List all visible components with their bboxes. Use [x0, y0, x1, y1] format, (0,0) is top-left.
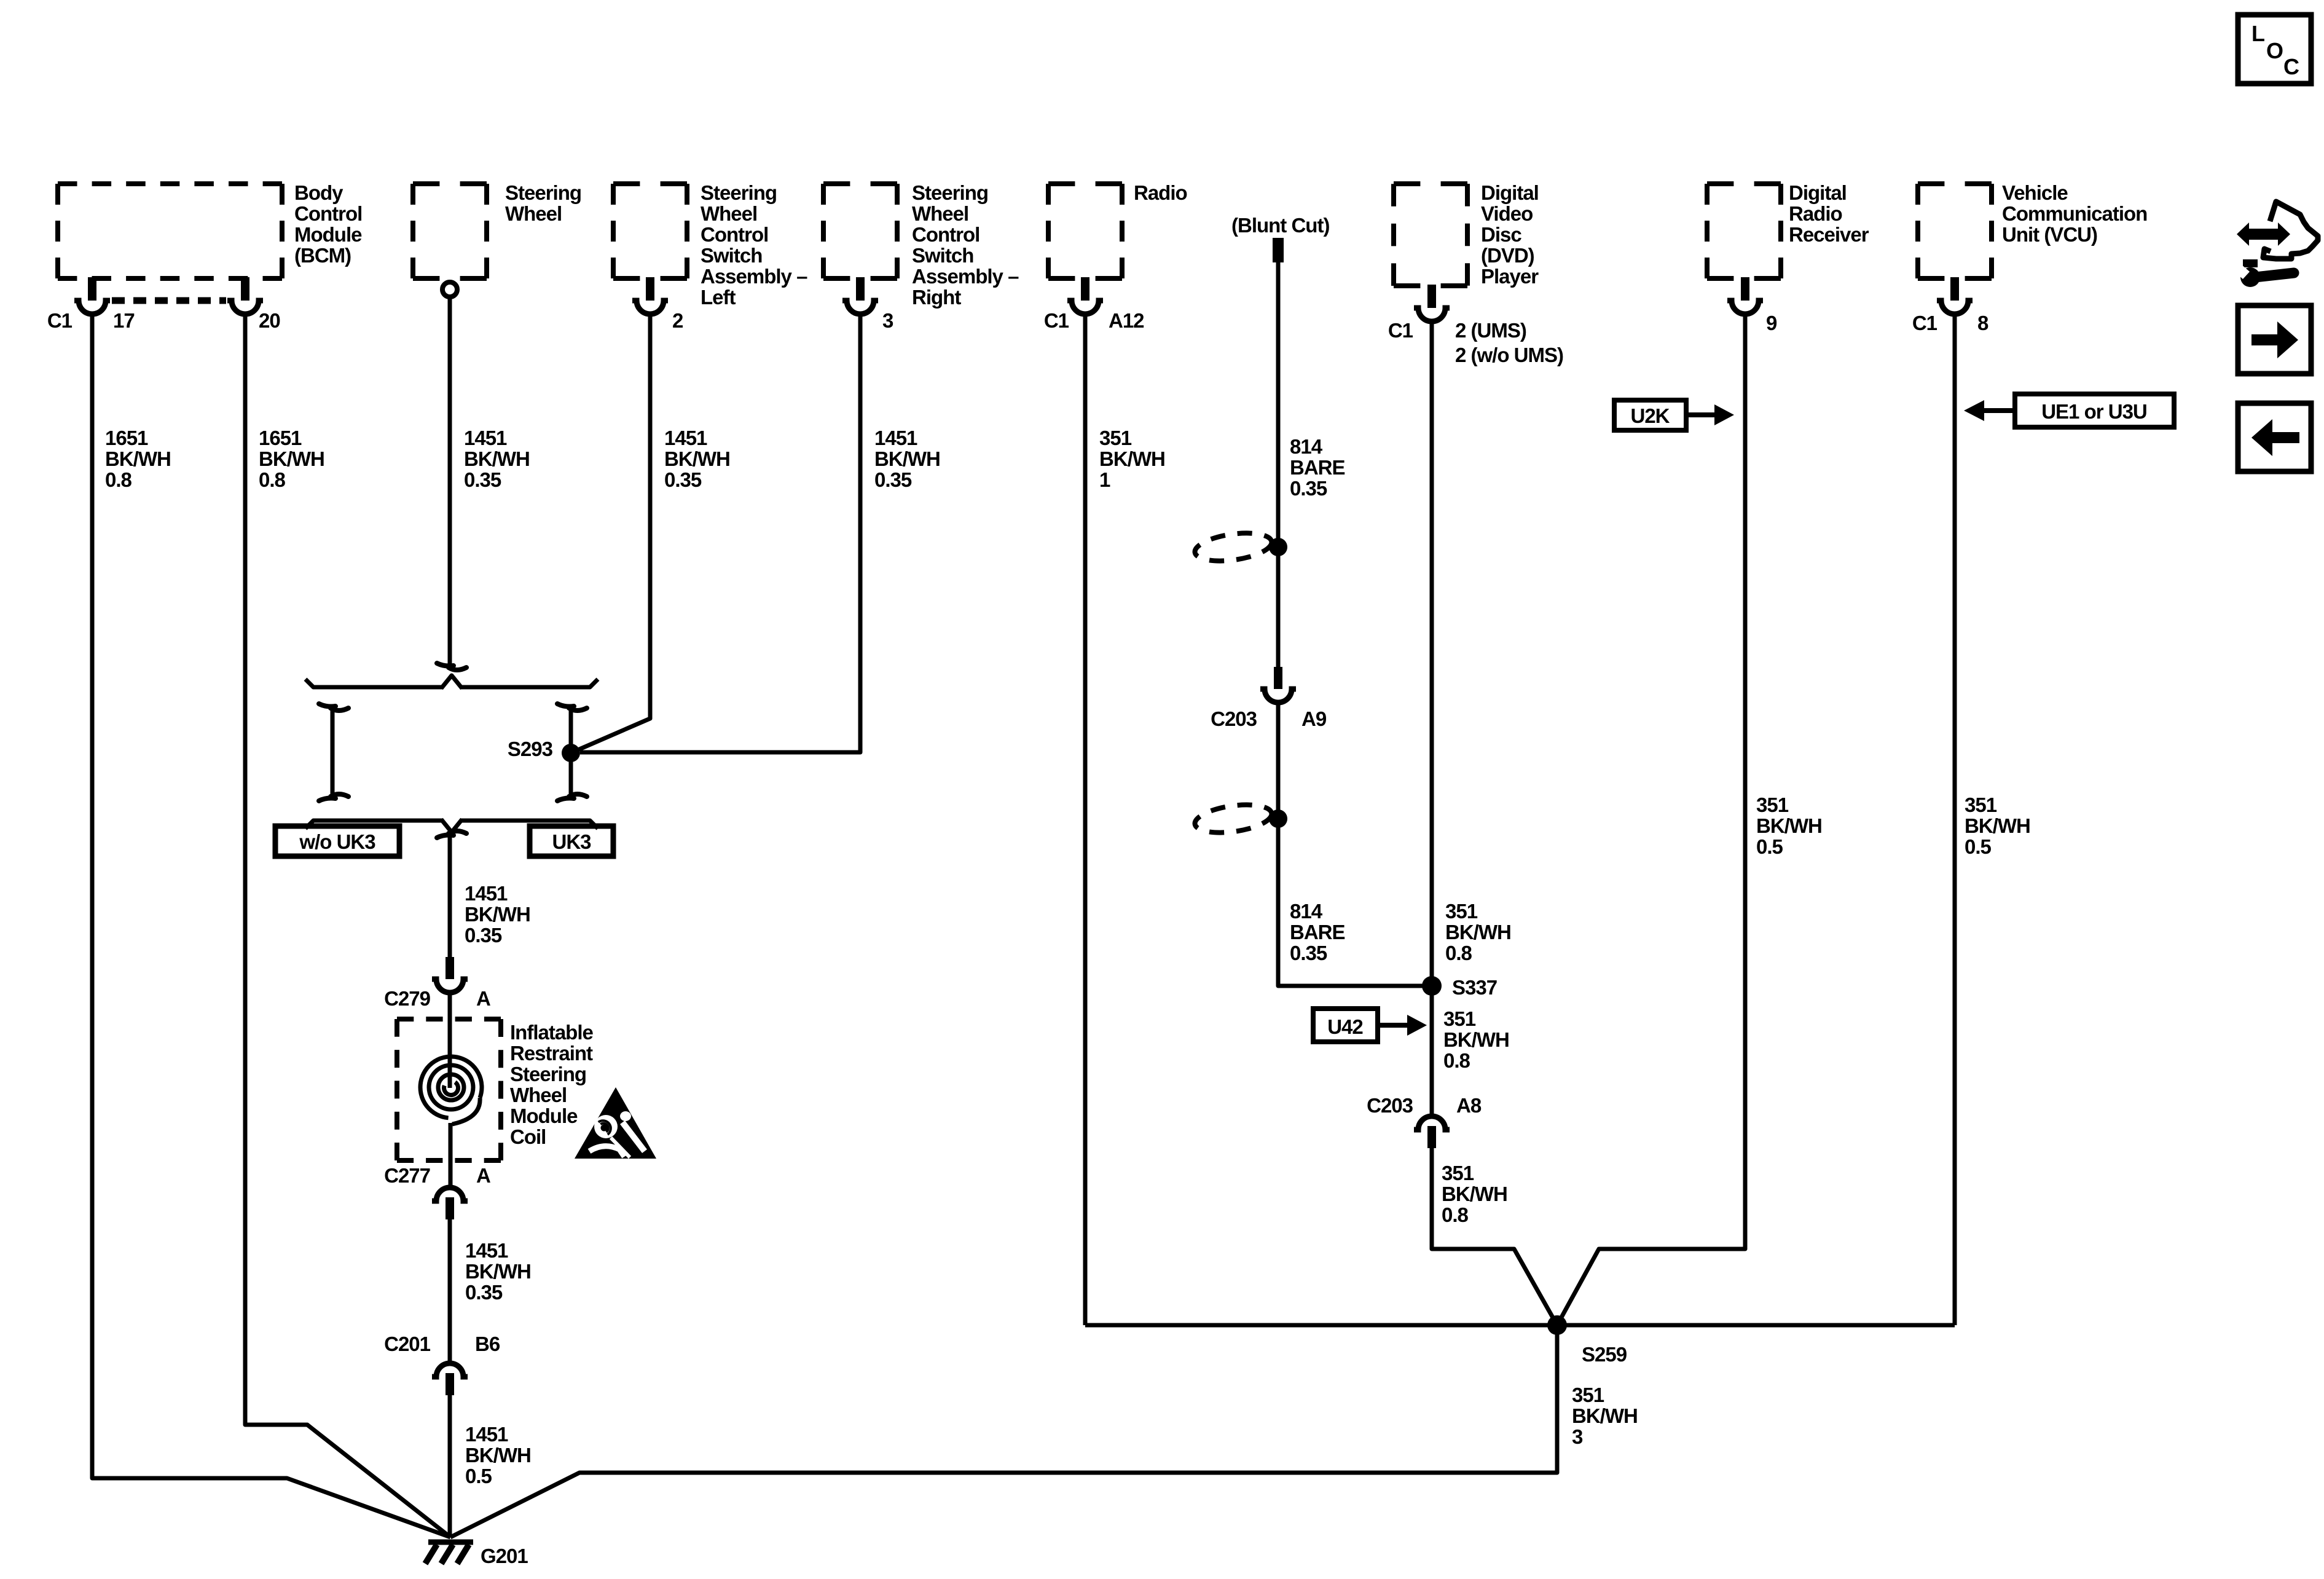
connector DVD C1 pin 2 — [1388, 285, 1563, 366]
wire 351 BK/WH 3 from S259 to G201 — [450, 1325, 1557, 1537]
svg-text:Module: Module — [294, 223, 362, 246]
option box w/o UK3 — [275, 826, 399, 856]
svg-text:1451: 1451 — [464, 427, 507, 449]
svg-text:(BCM): (BCM) — [294, 244, 351, 267]
svg-text:U2K: U2K — [1630, 404, 1670, 427]
svg-text:BK/WH: BK/WH — [259, 447, 324, 470]
splice sleeve lower (dashed ellipse) — [1193, 800, 1274, 837]
svg-text:Steering: Steering — [510, 1063, 586, 1085]
svg-text:Control: Control — [912, 223, 979, 246]
svg-text:1451: 1451 — [874, 427, 917, 449]
svg-text:Assembly –: Assembly – — [701, 265, 807, 288]
svg-text:Radio: Radio — [1134, 181, 1187, 204]
svg-text:C201: C201 — [384, 1333, 431, 1355]
wire 814 BARE 0.35 upper — [1276, 262, 1281, 668]
connector VCU C1 pin 8 — [1912, 277, 1988, 334]
option box UK3 — [530, 826, 613, 856]
label wire 351 BK/WH 0.8 (below S337) — [1443, 1007, 1509, 1072]
wire 351 BK/WH 0.5 from DRR to S259 — [1557, 314, 1745, 1325]
wire 1651 BK/WH 0.8 from BCM pin 20 to G201 — [245, 314, 450, 1537]
option brace bottom — [305, 819, 598, 832]
connector SWCS-Right pin 3 — [842, 277, 893, 332]
svg-text:Body: Body — [294, 181, 343, 204]
svg-text:Control: Control — [294, 202, 362, 225]
label wire 351 BK/WH 0.8 (below C203) — [1442, 1162, 1507, 1226]
label wire 1451 BK/WH 0.5 — [465, 1423, 531, 1487]
svg-text:BK/WH: BK/WH — [465, 1260, 531, 1283]
wire break above option brace — [437, 663, 466, 670]
svg-text:BK/WH: BK/WH — [105, 447, 171, 470]
svg-text:O: O — [2266, 38, 2283, 63]
wire 351 BK/WH 0.8 from C203 A8 to S259 — [1432, 1148, 1557, 1325]
svg-text:20: 20 — [259, 309, 280, 332]
svg-text:Wheel: Wheel — [701, 202, 757, 225]
svg-text:S293: S293 — [508, 738, 553, 760]
svg-text:G201: G201 — [481, 1545, 528, 1567]
svg-text:Wheel: Wheel — [912, 202, 968, 225]
svg-text:Coil: Coil — [510, 1125, 546, 1148]
svg-text:2 (w/o UMS): 2 (w/o UMS) — [1455, 344, 1563, 366]
svg-text:0.5: 0.5 — [1965, 835, 1992, 858]
svg-text:Right: Right — [912, 286, 961, 309]
svg-text:0.8: 0.8 — [259, 468, 286, 491]
svg-text:BK/WH: BK/WH — [465, 903, 530, 926]
svg-text:BK/WH: BK/WH — [1756, 814, 1822, 837]
module box: Steering Wheel Control Switch Assembly - Left — [613, 181, 807, 309]
svg-text:0.35: 0.35 — [874, 468, 912, 491]
splice S259 — [1547, 1315, 1627, 1366]
svg-text:B6: B6 — [475, 1333, 500, 1355]
label wire 351 BK/WH 0.5 (VCU) — [1965, 793, 2030, 858]
label wire 1651 BK/WH 0.8 (pin 20) — [259, 427, 324, 491]
svg-text:351: 351 — [1099, 427, 1132, 449]
svg-text:A8: A8 — [1456, 1094, 1482, 1117]
svg-text:3: 3 — [1572, 1425, 1583, 1448]
label wire 351 BK/WH 1 — [1099, 427, 1165, 491]
svg-text:0.5: 0.5 — [465, 1465, 492, 1487]
wire 814 BARE 0.35 lower — [1278, 703, 1423, 986]
label wire 1651 BK/WH 0.8 (pin 17) — [105, 427, 171, 491]
label wire 351 BK/WH 0.5 (DRR) — [1756, 793, 1822, 858]
svg-text:0.5: 0.5 — [1756, 835, 1783, 858]
svg-text:351: 351 — [1442, 1162, 1474, 1184]
svg-text:S337: S337 — [1452, 976, 1497, 999]
wire 1451 BK/WH 0.5 from C201 to G201 — [448, 1395, 452, 1537]
svg-text:351: 351 — [1965, 793, 1997, 816]
module box: Body Control Module (BCM) — [58, 181, 362, 278]
svg-text:1: 1 — [1099, 468, 1110, 491]
svg-text:A: A — [476, 1164, 490, 1187]
svg-text:Assembly –: Assembly – — [912, 265, 1019, 288]
svg-text:0.8: 0.8 — [1442, 1203, 1469, 1226]
svg-text:Unit (VCU): Unit (VCU) — [2002, 223, 2097, 246]
wire from SWCS-Left pin 2 to S293 — [571, 314, 650, 753]
svg-text:BK/WH: BK/WH — [1443, 1028, 1509, 1051]
svg-text:BK/WH: BK/WH — [1445, 921, 1511, 943]
connector C277 pin A — [384, 1164, 490, 1219]
svg-text:C203: C203 — [1367, 1094, 1413, 1117]
label wire 1451 BK/WH 0.35 (SWCS-R) — [874, 427, 940, 491]
svg-text:0.35: 0.35 — [465, 924, 502, 947]
svg-text:BK/WH: BK/WH — [664, 447, 730, 470]
svg-text:Steering: Steering — [701, 181, 777, 204]
svg-text:0.35: 0.35 — [1290, 477, 1327, 500]
svg-text:1651: 1651 — [259, 427, 302, 449]
wire 1451 BK/WH 0.35 to C279 — [448, 837, 452, 958]
svg-text:UE1 or U3U: UE1 or U3U — [2041, 400, 2147, 423]
svg-text:Digital: Digital — [1481, 181, 1539, 204]
svg-text:Switch: Switch — [912, 244, 973, 267]
svg-text:Communication: Communication — [2002, 202, 2147, 225]
splice S293 — [508, 738, 580, 762]
wire 351 BK/WH 0.8 from DVD player — [1430, 321, 1434, 1114]
svg-text:A9: A9 — [1301, 707, 1327, 730]
svg-text:814: 814 — [1290, 900, 1323, 923]
svg-text:C279: C279 — [384, 987, 431, 1010]
svg-text:2 (UMS): 2 (UMS) — [1455, 319, 1526, 342]
label wire 1451 BK/WH 0.35 (above C279) — [465, 882, 530, 947]
svg-text:Steering: Steering — [505, 181, 581, 204]
svg-text:UK3: UK3 — [552, 830, 591, 853]
svg-text:Video: Video — [1481, 202, 1533, 225]
svg-text:BK/WH: BK/WH — [1442, 1183, 1507, 1205]
alternative branch right (UK3) — [557, 704, 587, 801]
wire 351 BK/WH 0.5 from VCU to S259 — [1953, 314, 1957, 1325]
airbag warning triangle — [575, 1087, 656, 1159]
module box: Radio — [1048, 181, 1187, 278]
svg-text:351: 351 — [1443, 1007, 1476, 1030]
alternative branch left (w/o UK3) — [319, 704, 348, 801]
svg-text:1651: 1651 — [105, 427, 148, 449]
svg-text:1451: 1451 — [465, 1423, 508, 1446]
svg-text:BK/WH: BK/WH — [1572, 1404, 1638, 1427]
module box: Vehicle Communication Unit (VCU) — [1918, 181, 2147, 278]
svg-text:Switch: Switch — [701, 244, 762, 267]
svg-text:Module: Module — [510, 1105, 578, 1127]
svg-text:2: 2 — [672, 309, 683, 332]
svg-text:Wheel: Wheel — [505, 202, 562, 225]
svg-text:1451: 1451 — [664, 427, 707, 449]
label wire 814 BARE 0.35 (upper) — [1290, 435, 1345, 500]
connector DRR pin 9 — [1727, 277, 1777, 334]
connector BCM C1 pin 17 — [47, 277, 135, 332]
svg-text:0.8: 0.8 — [105, 468, 132, 491]
svg-text:(Blunt Cut): (Blunt Cut) — [1231, 214, 1329, 237]
svg-text:1451: 1451 — [465, 882, 508, 905]
connector SWCS-Left pin 2 — [632, 277, 683, 332]
svg-text:U42: U42 — [1327, 1015, 1363, 1038]
svg-text:0.35: 0.35 — [664, 468, 702, 491]
svg-text:351: 351 — [1445, 900, 1478, 923]
svg-text:Player: Player — [1481, 265, 1539, 288]
svg-text:Inflatable: Inflatable — [510, 1021, 594, 1044]
splice S337 — [1422, 976, 1497, 999]
wire 351 BK/WH 1 from radio to S259 — [1083, 314, 1088, 1325]
svg-text:Control: Control — [701, 223, 768, 246]
connector C1 dashed link — [112, 297, 226, 304]
right-arrow legend box — [2238, 305, 2311, 374]
svg-text:814: 814 — [1290, 435, 1323, 458]
connector C279 pin A — [384, 957, 490, 1010]
module box: Digital Radio Receiver — [1707, 181, 1869, 278]
svg-text:9: 9 — [1766, 312, 1777, 334]
wire into coil module — [448, 993, 452, 1088]
connector: steering wheel ring terminal — [442, 282, 457, 297]
connector C201 pin B6 — [384, 1333, 500, 1395]
svg-text:0.35: 0.35 — [465, 1281, 503, 1304]
connector BCM C1 pin 20 — [227, 277, 280, 332]
label wire 351 BK/WH 0.8 (above S337) — [1445, 900, 1511, 964]
blunt cut terminal — [1231, 214, 1329, 262]
LOC legend box — [2238, 15, 2311, 84]
svg-text:BK/WH: BK/WH — [874, 447, 940, 470]
vehicle service icon (car, double arrow, wrench) — [2230, 202, 2318, 287]
svg-text:w/o UK3: w/o UK3 — [299, 830, 375, 853]
svg-text:3: 3 — [882, 309, 893, 332]
svg-text:A12: A12 — [1109, 309, 1144, 332]
svg-text:BK/WH: BK/WH — [465, 1444, 531, 1467]
label wire 351 BK/WH 3 — [1572, 1384, 1638, 1448]
label wire 1451 BK/WH 0.35 (steering wheel) — [464, 427, 530, 491]
option brace top — [305, 675, 598, 688]
module box: Inflatable Restraint Steering Wheel Module Coil — [397, 1019, 594, 1160]
svg-text:351: 351 — [1756, 793, 1789, 816]
module box: Digital Video Disc (DVD) Player — [1394, 181, 1539, 288]
option flag UE1 or U3U — [1964, 394, 2174, 427]
clockspring coil symbol — [420, 1057, 482, 1124]
svg-text:Digital: Digital — [1789, 181, 1847, 204]
svg-text:C203: C203 — [1211, 707, 1257, 730]
svg-text:C1: C1 — [47, 309, 73, 332]
junction dot on bare wire lower — [1269, 809, 1287, 828]
svg-text:0.35: 0.35 — [464, 468, 501, 491]
svg-text:Left: Left — [701, 286, 736, 309]
svg-text:Restraint: Restraint — [510, 1042, 593, 1065]
connector Radio C1 pin A12 — [1044, 277, 1144, 332]
svg-text:351: 351 — [1572, 1384, 1604, 1406]
svg-text:C1: C1 — [1912, 312, 1937, 334]
svg-text:Steering: Steering — [912, 181, 988, 204]
svg-text:Disc: Disc — [1481, 223, 1521, 246]
svg-text:Wheel: Wheel — [510, 1084, 567, 1106]
svg-text:0.8: 0.8 — [1445, 942, 1472, 964]
svg-text:BK/WH: BK/WH — [464, 447, 530, 470]
module box: Steering Wheel Control Switch Assembly - Right — [823, 181, 1019, 309]
junction dot on bare wire upper — [1269, 538, 1287, 556]
ground bus wire at S259 — [1085, 1323, 1955, 1328]
wire 1651 BK/WH 0.8 from BCM pin 17 to G201 — [92, 314, 450, 1537]
label wire 1451 BK/WH 0.35 (SWCS-L) — [664, 427, 730, 491]
svg-text:C277: C277 — [384, 1164, 430, 1187]
wire from coil module to C277 — [449, 1123, 453, 1185]
label wire 1451 BK/WH 0.35 (below coil) — [465, 1239, 531, 1304]
svg-text:0.35: 0.35 — [1290, 942, 1327, 964]
svg-text:S259: S259 — [1582, 1343, 1627, 1366]
svg-text:C1: C1 — [1044, 309, 1069, 332]
svg-text:BK/WH: BK/WH — [1099, 447, 1165, 470]
option flag U42 — [1313, 1009, 1427, 1042]
svg-text:L: L — [2251, 21, 2264, 46]
svg-text:17: 17 — [113, 309, 135, 332]
svg-text:C: C — [2283, 54, 2299, 79]
svg-text:Receiver: Receiver — [1789, 223, 1869, 246]
svg-text:A: A — [476, 987, 490, 1010]
wire break below option brace — [437, 831, 466, 838]
svg-text:0.8: 0.8 — [1443, 1049, 1470, 1072]
module box: Steering Wheel — [413, 181, 581, 278]
svg-text:Radio: Radio — [1789, 202, 1842, 225]
svg-text:C1: C1 — [1388, 319, 1413, 342]
svg-text:(DVD): (DVD) — [1481, 244, 1534, 267]
wire 1451 BK/WH 0.35 from steering wheel — [448, 297, 452, 664]
svg-text:8: 8 — [1977, 312, 1988, 334]
svg-text:BK/WH: BK/WH — [1965, 814, 2030, 837]
left-arrow legend box — [2238, 403, 2311, 471]
wire from SWCS-Right pin 3 to S293 — [580, 314, 860, 752]
svg-text:BARE: BARE — [1290, 456, 1345, 479]
svg-text:1451: 1451 — [465, 1239, 508, 1262]
label wire 814 BARE 0.35 (lower) — [1290, 900, 1345, 964]
svg-text:Vehicle: Vehicle — [2002, 181, 2068, 204]
connector C203 pin A8 — [1367, 1094, 1482, 1148]
wire 1451 BK/WH 0.35 from C277 to C201 — [448, 1219, 452, 1361]
ground G201 — [425, 1542, 528, 1567]
connector C203 pin A9 — [1211, 667, 1327, 730]
option flag U2K — [1614, 400, 1734, 430]
svg-text:BARE: BARE — [1290, 921, 1345, 943]
splice sleeve upper (dashed ellipse) — [1193, 529, 1274, 565]
